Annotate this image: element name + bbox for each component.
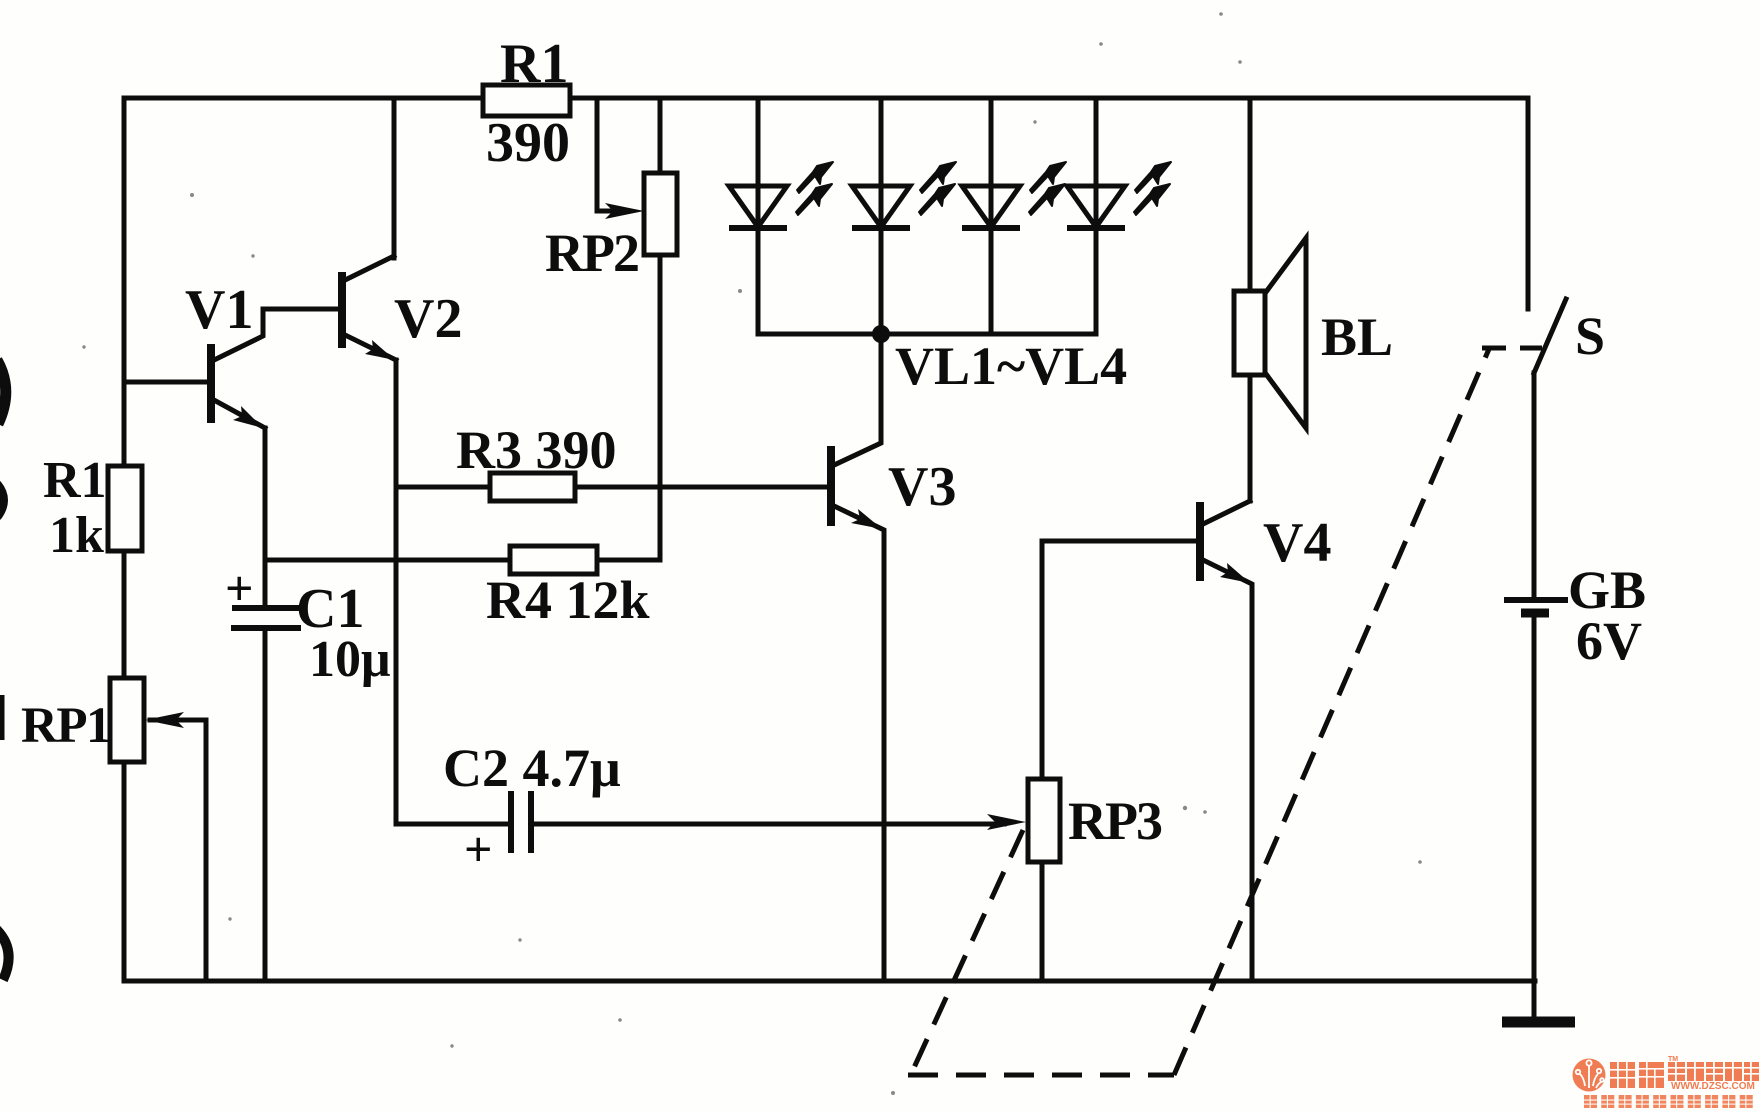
svg-text:R3 390: R3 390 — [456, 420, 617, 480]
svg-text:TM: TM — [1668, 1056, 1678, 1063]
svg-text:RP1: RP1 — [21, 698, 110, 754]
svg-text:RP2: RP2 — [545, 223, 638, 283]
svg-text:V2: V2 — [394, 288, 462, 350]
svg-text:1k: 1k — [49, 507, 104, 564]
svg-text:WWW.DZSC.COM: WWW.DZSC.COM — [1671, 1081, 1755, 1092]
svg-text:VL1~VL4: VL1~VL4 — [895, 336, 1127, 396]
svg-text:10μ: 10μ — [309, 631, 390, 688]
svg-text:C2 4.7μ: C2 4.7μ — [443, 738, 621, 798]
svg-text:V3: V3 — [888, 456, 956, 518]
svg-text:RP3: RP3 — [1068, 791, 1162, 851]
svg-text:+: + — [464, 821, 493, 877]
svg-text:+: + — [225, 560, 254, 616]
svg-text:6V: 6V — [1576, 611, 1642, 671]
svg-text:BL: BL — [1321, 307, 1393, 367]
svg-text:R1: R1 — [43, 452, 107, 509]
svg-text:390: 390 — [486, 112, 570, 174]
svg-text:S: S — [1575, 306, 1605, 366]
svg-text:V4: V4 — [1263, 512, 1331, 574]
svg-text:R4 12k: R4 12k — [486, 570, 650, 630]
svg-text:R1: R1 — [500, 33, 568, 95]
svg-text:V1: V1 — [185, 279, 253, 341]
